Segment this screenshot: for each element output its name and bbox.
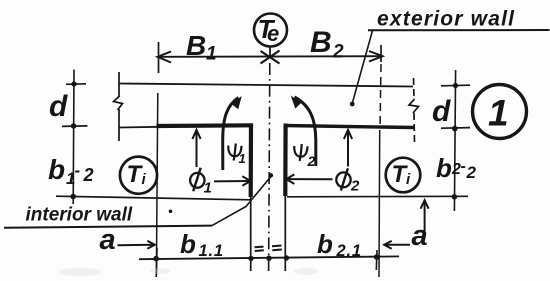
exterior wall right break mark [409, 99, 419, 113]
left tick dots [71, 81, 76, 86]
svg-text:1: 1 [488, 93, 509, 134]
svg-text:2.1: 2.1 [336, 242, 362, 260]
interior wall left face thin lower part [250, 197, 252, 271]
svg-text:2: 2 [451, 161, 461, 178]
left d bottom tick [62, 125, 88, 128]
centerline stem below Te [269, 47, 271, 58]
left dimension vertical line (d and b1-2) [72, 70, 75, 205]
svg-text:a: a [100, 224, 116, 256]
interior wall left face thick [249, 124, 254, 198]
arrowhead right of B2 [369, 51, 383, 62]
exterior wall bottom line left thin segment [119, 126, 160, 129]
node Ti circle left [120, 157, 157, 194]
centerline dash-dot axis [269, 63, 270, 271]
bottom dim tick left [155, 248, 158, 277]
right tick dots [453, 83, 458, 88]
exterior wall right cut end dashed line [414, 78, 415, 144]
label psi2 [294, 146, 307, 157]
exterior wall left cut end line [118, 72, 120, 141]
exterior wall label underline [368, 29, 550, 31]
label phi2 [336, 172, 350, 187]
exterior wall leader dot [350, 102, 355, 107]
left d top tick [66, 83, 86, 86]
svg-text:B: B [310, 26, 332, 59]
svg-text:b: b [436, 153, 452, 183]
label phi1 [190, 173, 204, 188]
detail circle 1 [473, 85, 527, 139]
psi1 curved arrow [223, 98, 239, 171]
interior wall leader dot [269, 173, 274, 178]
psi1 arrowhead [231, 96, 242, 109]
B2 extension dashed through wall [380, 64, 381, 129]
node Ti circle right [386, 158, 421, 193]
bottom dimension line [139, 256, 399, 259]
right d bottom tick [441, 127, 470, 130]
faint paper smudge [58, 268, 102, 276]
svg-text:2: 2 [350, 178, 360, 195]
svg-text:2: 2 [83, 165, 94, 185]
svg-text:1: 1 [239, 151, 246, 166]
heat flux up arrow left [196, 131, 198, 168]
svg-text:-: - [461, 158, 466, 175]
equality mark right [272, 246, 282, 251]
bottom dim dots [153, 256, 159, 262]
a left arrow [118, 244, 154, 247]
interior floor line right [287, 195, 468, 198]
b2.1 extension line lower [378, 130, 381, 277]
exterior wall top line [119, 84, 413, 87]
exterior wall leader line [352, 30, 372, 103]
svg-text:2: 2 [307, 153, 316, 169]
svg-text:B: B [186, 30, 206, 61]
svg-text:d: d [432, 95, 451, 128]
B1/b1.1 extension line lower [156, 93, 157, 271]
exterior wall interior surface thick line right [284, 126, 414, 128]
svg-text:e: e [267, 21, 279, 46]
phi2 arrow [289, 178, 333, 180]
svg-text:2: 2 [466, 163, 477, 182]
stray ink dot [169, 210, 173, 214]
right dimension vertical line (d and b2-2) [454, 70, 455, 211]
psi2 curved arrow [295, 97, 316, 166]
svg-text:1: 1 [204, 180, 212, 197]
label psi1 [228, 146, 241, 157]
heat flux up arrow right [347, 131, 349, 167]
B1 extension line upper [158, 42, 160, 73]
equality mark left [255, 247, 264, 251]
interior wall label underline [4, 226, 212, 228]
node Te circle [254, 14, 287, 47]
interior wall right face thin lower part [284, 196, 286, 271]
bottom dim tick right [375, 250, 378, 270]
interior wall leader line [212, 177, 270, 225]
arrowhead left of B1 [158, 52, 172, 63]
phi1 arrow [214, 180, 249, 182]
dimension line B1 B2 [158, 55, 383, 58]
right d top tick [441, 84, 470, 87]
svg-text:interior wall: interior wall [26, 205, 133, 226]
svg-text:-: - [75, 161, 81, 180]
a right arrow horizontal [386, 244, 410, 246]
faint paper smudge [150, 268, 170, 274]
interior floor line left [56, 196, 250, 200]
psi2 arrowhead [291, 96, 301, 109]
B2 extension line upper tick [380, 45, 382, 62]
svg-text:b: b [48, 154, 65, 185]
interior wall right face thick [283, 124, 288, 197]
svg-text:1.1: 1.1 [199, 242, 224, 260]
svg-text:d: d [49, 90, 68, 123]
svg-text:2: 2 [332, 42, 344, 63]
a right arrow vertical [424, 201, 426, 232]
svg-text:1: 1 [206, 44, 217, 65]
svg-text:b: b [180, 229, 196, 259]
svg-text:b: b [317, 229, 333, 259]
exterior wall interior surface thick line left [157, 123, 254, 128]
faint paper smudge [294, 268, 318, 275]
svg-text:exterior wall: exterior wall [377, 8, 515, 31]
crossed arrowheads at centerline [261, 51, 280, 64]
exterior wall left break mark [114, 96, 123, 110]
